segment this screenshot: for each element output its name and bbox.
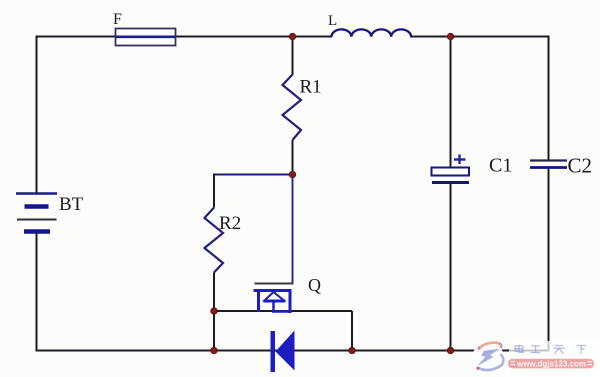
wire R2 stem upper xyxy=(213,174,215,208)
fuse F xyxy=(116,29,176,46)
wire C1 branch upper xyxy=(450,37,452,168)
label Q xyxy=(308,275,321,295)
wire left upper xyxy=(36,36,38,194)
capacitor C1 plus sign xyxy=(454,155,466,165)
wire top left segment xyxy=(37,36,117,38)
transistor Q1 body arrow xyxy=(264,292,292,312)
wire R2 stem lower xyxy=(213,273,215,351)
wire drain drop xyxy=(351,311,353,351)
label R1 xyxy=(300,77,322,98)
transistor Q1 gate bar xyxy=(255,283,294,285)
junction node bottom drain xyxy=(349,347,355,353)
wire bottom xyxy=(37,350,549,352)
junction node at C1 top xyxy=(447,33,453,39)
wire gate lead xyxy=(292,175,294,285)
svg-text:www.dgjs123.com: www.dgjs123.com xyxy=(516,359,586,368)
diode D1 triangle xyxy=(276,331,295,371)
diode D1 cathode bar xyxy=(271,331,276,372)
svg-text:R2: R2 xyxy=(219,213,241,234)
label C1 xyxy=(489,155,512,177)
junction node at R1 top xyxy=(289,33,295,39)
wire right upper xyxy=(548,36,550,160)
label BT xyxy=(59,194,84,215)
capacitor C2 xyxy=(530,161,567,168)
svg-text:C2: C2 xyxy=(568,154,593,178)
junction node bottom C1 xyxy=(447,347,453,353)
watermark hanzi gong xyxy=(531,346,541,353)
label C2 xyxy=(568,154,593,178)
wire top middle segment xyxy=(175,36,332,38)
wire left lower xyxy=(36,233,38,352)
capacitor C1 xyxy=(432,168,470,183)
wire source rail xyxy=(214,310,352,312)
transistor Q1 channel and legs xyxy=(254,290,292,314)
label L xyxy=(328,13,337,29)
svg-text:BT: BT xyxy=(59,194,84,215)
watermark hanzi dian xyxy=(515,345,524,353)
watermark backing xyxy=(473,341,600,377)
wire top right segment xyxy=(410,36,550,38)
wire C1 branch lower xyxy=(450,184,452,351)
svg-text:Q: Q xyxy=(308,275,321,295)
wire node A link (R2 top to gate node) xyxy=(214,174,294,176)
label F xyxy=(113,11,122,28)
junction node bottom left xyxy=(211,347,217,353)
wire R1 branch upper xyxy=(292,37,294,76)
battery BT xyxy=(16,194,57,232)
resistor R2 xyxy=(205,208,224,273)
svg-text:L: L xyxy=(328,13,337,29)
svg-text:F: F xyxy=(113,11,122,28)
junction node source-R2 xyxy=(211,308,217,314)
watermark hanzi tian xyxy=(554,346,565,354)
junction node gate xyxy=(289,171,295,177)
svg-text:C1: C1 xyxy=(489,155,512,177)
label R2 xyxy=(219,213,241,234)
watermark url box xyxy=(508,359,594,369)
inductor L xyxy=(332,29,412,36)
watermark logo xyxy=(476,343,503,370)
wire R1 branch lower xyxy=(292,140,294,175)
wire right lower xyxy=(548,169,550,352)
watermark hanzi xia xyxy=(577,346,587,354)
svg-text:R1: R1 xyxy=(300,77,322,98)
resistor R1 xyxy=(283,75,302,141)
